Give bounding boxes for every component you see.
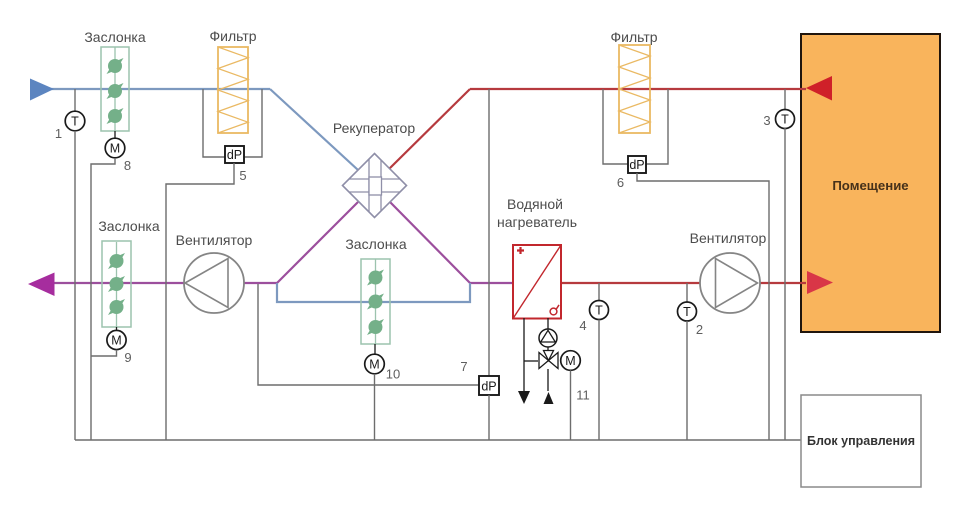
wire: valve to supply arrow — [547, 369, 549, 391]
wire: T2 to bus — [686, 321, 688, 440]
svg-text:1: 1 — [55, 126, 62, 141]
wire: M10 to bus — [374, 374, 376, 440]
svg-text:M: M — [369, 358, 379, 372]
wire: supply main duct (blue) — [50, 88, 270, 90]
wire: M8 to bus — [91, 158, 115, 440]
svg-text:Помещение: Помещение — [832, 178, 908, 193]
wire: heater supply pipe — [547, 318, 549, 329]
temperature sensor T4 — [579, 283, 608, 333]
svg-text:dP: dP — [227, 148, 242, 162]
actuator M11 — [561, 351, 590, 403]
svg-text:Заслонка: Заслонка — [98, 218, 160, 234]
filter F2 (exhaust, Фильтр) — [610, 29, 657, 133]
fan FAN2 (supply, Вентилятор) — [690, 230, 767, 313]
svg-text:11: 11 — [576, 388, 590, 403]
svg-text:M: M — [111, 334, 121, 348]
svg-text:Вентилятор: Вентилятор — [176, 232, 253, 248]
svg-text:Рекуператор: Рекуператор — [333, 120, 415, 136]
wire: supply diagonal into recuperator — [270, 89, 358, 170]
three-way valve V1 — [539, 351, 558, 369]
wire: bypass duct (blue) — [277, 283, 470, 302]
wire: M9 to bus — [91, 350, 117, 356]
temperature sensor T3 — [763, 89, 794, 129]
wire: pump to valve — [547, 347, 549, 353]
actuator M9 — [107, 327, 132, 365]
svg-text:Фильтр: Фильтр — [610, 29, 657, 45]
actuator M8 — [105, 131, 131, 173]
wire: exhaust diagonal out of recuperator (purple, to left) — [277, 202, 358, 283]
damper Z1 (supply, Заслонка) — [84, 29, 146, 131]
svg-text:6: 6 — [617, 175, 624, 190]
supply inlet arrow — [30, 79, 54, 101]
wire: heater return pipe — [523, 318, 525, 391]
wire: exhaust bottom duct (purple) — [54, 282, 277, 284]
recuperator U1 — [333, 120, 415, 218]
svg-text:T: T — [781, 113, 789, 127]
room (Помещение) — [801, 34, 940, 332]
svg-text:нагреватель: нагреватель — [497, 214, 577, 230]
wire: valve bypass — [524, 360, 538, 362]
svg-text:Заслонка: Заслонка — [345, 236, 407, 252]
wire: control bus — [75, 439, 801, 441]
wire: dP6 to bus — [637, 173, 769, 440]
exhaust-from-room arrow — [806, 76, 832, 101]
wire: T1 to bus — [74, 131, 76, 440]
wire: duct from recuperator to heater (purple) — [470, 282, 512, 284]
svg-text:9: 9 — [124, 350, 131, 365]
actuator M10 — [365, 344, 401, 382]
svg-text:T: T — [683, 305, 691, 319]
dP sensor dP5 — [203, 89, 262, 183]
wire: exhaust diagonal into recuperator (red) — [389, 89, 470, 169]
wire: dP5 to bus — [166, 163, 234, 440]
svg-text:Фильтр: Фильтр — [209, 28, 256, 44]
svg-text:2: 2 — [696, 322, 703, 337]
control unit (Блок управления) — [801, 395, 921, 487]
dP sensor dP6 — [603, 89, 668, 190]
svg-text:5: 5 — [239, 168, 246, 183]
svg-text:dP: dP — [481, 380, 496, 394]
svg-text:Водяной: Водяной — [507, 196, 563, 212]
heater HE1 (Водяной нагреватель) — [497, 196, 577, 319]
svg-text:T: T — [71, 115, 79, 129]
wire: dP7 to bus — [488, 395, 490, 440]
dP sensor dP7 — [258, 89, 499, 395]
supply arrow up — [544, 392, 554, 404]
svg-text:M: M — [110, 142, 120, 156]
svg-text:10: 10 — [386, 367, 400, 382]
wire: T3 to bus — [784, 128, 786, 440]
wire: supply diagonal out of recuperator (purple, to right) — [390, 202, 470, 283]
svg-text:Блок управления: Блок управления — [807, 434, 915, 448]
pump P1 — [539, 329, 557, 347]
svg-text:3: 3 — [763, 113, 770, 128]
damper Z2 (exhaust, Заслонка) — [98, 218, 160, 327]
svg-text:M: M — [565, 354, 575, 368]
svg-text:Вентилятор: Вентилятор — [690, 230, 767, 246]
fan FAN1 (exhaust, Вентилятор) — [176, 232, 253, 313]
temperature sensor T2 — [678, 283, 704, 337]
return arrow down — [518, 391, 530, 404]
wire: T4 to bus — [598, 320, 600, 441]
svg-text:8: 8 — [124, 158, 131, 173]
svg-text:4: 4 — [579, 318, 586, 333]
temperature sensor T1 — [55, 89, 85, 141]
svg-text:7: 7 — [460, 359, 467, 374]
wire: exhaust main duct top (red) from room to recuperator — [470, 88, 806, 90]
svg-text:T: T — [595, 304, 603, 318]
damper Z3 (bypass, Заслонка) — [345, 236, 407, 344]
svg-text:Заслонка: Заслонка — [84, 29, 146, 45]
svg-text:dP: dP — [629, 158, 644, 172]
wire: M11 to bus — [570, 370, 572, 440]
filter F1 (supply, Фильтр) — [209, 28, 256, 133]
exhaust outlet arrow — [28, 273, 55, 297]
supply-to-room arrow — [807, 271, 833, 294]
wire: supply duct heater to room (red) — [562, 282, 806, 284]
